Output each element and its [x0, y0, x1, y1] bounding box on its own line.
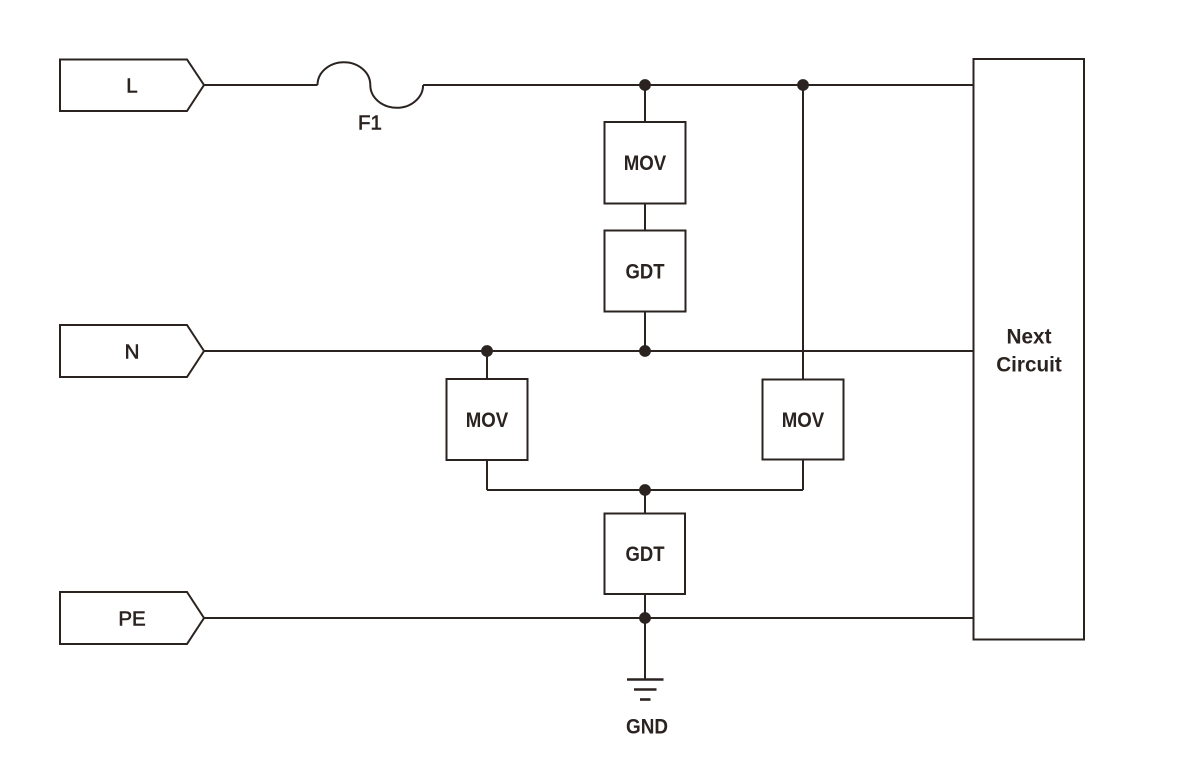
svg-text:N: N: [125, 341, 140, 364]
junction dot N/GDT1 node: [639, 345, 651, 357]
varistor MOV2 (N-PE) body: [447, 379, 528, 460]
svg-text:GDT: GDT: [626, 261, 665, 284]
wire fuse to Next Circuit block (L line): [423, 84, 973, 86]
ground symbol: [627, 680, 664, 700]
svg-text:Next: Next: [1007, 326, 1052, 349]
svg-text:F1: F1: [358, 112, 382, 135]
net tag L: [60, 60, 204, 112]
wire N junction to MOV2: [486, 351, 488, 379]
junction dot common MOV/GDT2 node: [639, 484, 651, 496]
svg-text:PE: PE: [118, 608, 145, 631]
svg-text:MOV: MOV: [624, 152, 667, 175]
junction dot L/MOV1 node: [639, 79, 651, 91]
block Next Circuit body: [974, 59, 1085, 640]
junction dot N/MOV2 node: [481, 345, 493, 357]
varistor MOV1 (L-N) body: [605, 122, 686, 204]
gas discharge tube GDT1 body: [605, 231, 686, 312]
svg-text:GND: GND: [626, 716, 668, 739]
wire MOV1 to GDT1: [644, 204, 646, 231]
wire PE line: [204, 617, 974, 619]
wire PE junction to ground: [644, 618, 646, 679]
wire L junction to MOV3 (crosses N line): [802, 85, 804, 380]
junction dot L/MOV3 node: [797, 79, 809, 91]
wire MOV3 to common node: [802, 460, 804, 491]
svg-text:L: L: [126, 75, 137, 98]
wire GDT2 to PE line: [644, 594, 646, 618]
fuse F1: [318, 62, 424, 108]
varistor MOV3 (L-PE) body: [763, 380, 844, 460]
net tag PE: [60, 592, 204, 644]
wire N line: [204, 350, 974, 352]
wire MOV2 to common node: [486, 460, 488, 490]
svg-text:GDT: GDT: [626, 543, 665, 566]
svg-text:Circuit: Circuit: [996, 354, 1062, 377]
wire GDT1 to N line: [644, 312, 646, 352]
wire L junction to MOV1: [644, 85, 646, 122]
net tag N: [60, 325, 204, 377]
svg-text:MOV: MOV: [782, 409, 825, 432]
junction dot PE/ground node: [639, 612, 651, 624]
wire common node horizontal: [487, 489, 803, 491]
wire common node to GDT2: [644, 490, 646, 514]
wire L tag to fuse: [204, 84, 318, 86]
svg-text:MOV: MOV: [466, 409, 509, 432]
gas discharge tube GDT2 body: [605, 514, 686, 595]
